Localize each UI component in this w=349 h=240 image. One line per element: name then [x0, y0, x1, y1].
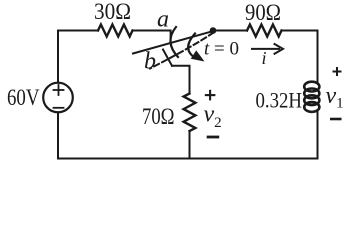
svg-text:b: b [144, 49, 156, 75]
svg-text:v2: v2 [204, 102, 222, 132]
switch dashed blade (position b) [150, 33, 214, 69]
wire left vertical bottom [57, 112, 59, 158]
wire pivot to 90ohm [214, 30, 247, 32]
switch motion arc left [170, 27, 178, 57]
wire middle branch top [172, 66, 190, 94]
switch contact b lead [163, 50, 172, 66]
label v1 minus [330, 118, 342, 121]
svg-text:v1: v1 [326, 83, 344, 112]
label v2 minus [207, 136, 220, 139]
inductor L 0.32H [304, 82, 319, 112]
wire middle branch bottom [189, 131, 191, 159]
switch pivot node dot [210, 27, 217, 34]
source plus sign [54, 85, 64, 95]
wire left vertical top [57, 31, 59, 83]
svg-text:90Ω: 90Ω [245, 0, 281, 25]
svg-text:t = 0: t = 0 [204, 39, 239, 60]
switch motion arc right [188, 34, 195, 56]
svg-text:70Ω: 70Ω [142, 104, 175, 129]
wire 30ohm to contact a [133, 31, 171, 39]
switch motion arrowhead [191, 50, 205, 61]
wire right vertical bottom [317, 111, 319, 159]
voltage source V 60V [43, 83, 73, 113]
source minus sign [54, 107, 64, 109]
label v1 plus [333, 67, 342, 76]
svg-text:i: i [262, 48, 267, 68]
svg-text:0.32H: 0.32H [256, 88, 303, 113]
current i arrow [252, 48, 279, 50]
switch blade (position a) [133, 31, 214, 54]
resistor R 90ohm [247, 25, 282, 37]
label v2 plus [205, 90, 216, 101]
wire bottom [58, 158, 318, 160]
resistor R 30ohm [98, 25, 133, 37]
svg-text:60V: 60V [7, 85, 40, 110]
svg-text:30Ω: 30Ω [94, 0, 131, 24]
svg-text:a: a [157, 7, 169, 33]
wire 90ohm to top-right corner [282, 30, 318, 32]
wire right vertical top [317, 31, 319, 84]
resistor R 70ohm [184, 94, 196, 132]
wire top-left from source to 30ohm [58, 30, 98, 32]
